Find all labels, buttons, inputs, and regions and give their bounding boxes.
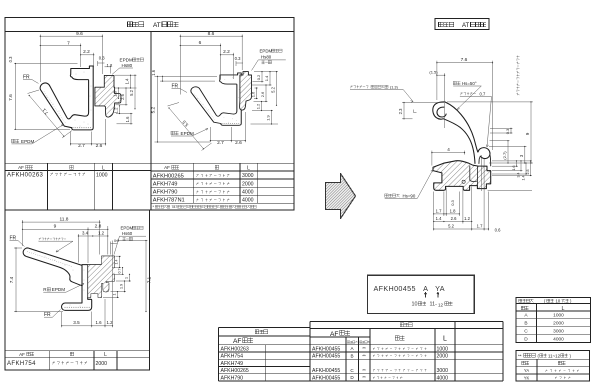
- dimensions drawing3: [14, 220, 148, 327]
- beak inner curl: [437, 107, 446, 117]
- label mimi 0.7: [460, 92, 462, 95]
- dotted boundary foot3: [65, 306, 91, 308]
- svg-text:AFKH00455: AFKH00455: [312, 375, 340, 381]
- svg-text:Hs80: Hs80: [261, 55, 272, 60]
- svg-text:0.3: 0.3: [235, 56, 241, 61]
- svg-text:AFKH00455: AFKH00455: [374, 284, 416, 293]
- svg-text:4: 4: [447, 147, 450, 152]
- svg-text:4000: 4000: [242, 189, 254, 195]
- svg-text:1.2: 1.2: [98, 230, 105, 235]
- material boundary dashed line: [222, 123, 240, 125]
- svg-text:0.2: 0.2: [256, 74, 261, 80]
- svg-text:A: A: [423, 284, 428, 293]
- svg-text:0.6: 0.6: [495, 228, 501, 233]
- hatch region3: [88, 256, 115, 297]
- svg-text:1.6: 1.6: [512, 166, 516, 171]
- svg-text:1.6: 1.6: [251, 91, 256, 97]
- svg-text:2.6: 2.6: [96, 143, 103, 149]
- svg-text:2.3: 2.3: [398, 108, 403, 114]
- svg-text:2.8: 2.8: [526, 170, 530, 175]
- attached hatched part drawing2: [240, 72, 252, 110]
- svg-text:D: D: [524, 336, 528, 342]
- svg-text:0.7: 0.7: [480, 92, 486, 97]
- svg-text:AT: AT: [462, 23, 470, 29]
- svg-text:EPDM: EPDM: [52, 287, 65, 292]
- 本体EPDM label: [12, 139, 16, 143]
- svg-text:AFKH00265: AFKH00265: [221, 368, 249, 374]
- svg-text:1.6: 1.6: [125, 116, 130, 122]
- 本体EPDM label d2: [171, 131, 175, 135]
- svg-text:**: **: [362, 346, 366, 351]
- part number box AFKH00455 A YA: [367, 275, 474, 313]
- svg-text:0.7: 0.7: [118, 269, 122, 274]
- svg-text:6: 6: [199, 40, 202, 46]
- svg-text:AFKH787N1: AFKH787N1: [153, 198, 185, 204]
- svg-text:B: B: [524, 321, 527, 327]
- svg-text:(1.5): (1.5): [429, 70, 438, 75]
- svg-text:EPDM: EPDM: [120, 58, 133, 63]
- svg-text:1.7: 1.7: [477, 224, 483, 229]
- svg-text:0.3: 0.3: [99, 56, 105, 61]
- svg-text:2000: 2000: [96, 361, 108, 367]
- table T2 under drawing2: [151, 163, 294, 209]
- svg-text:C: C: [524, 328, 528, 334]
- svg-text:1.2: 1.2: [114, 107, 119, 113]
- svg-text:L: L: [104, 352, 107, 358]
- svg-text:Hs80: Hs80: [122, 63, 133, 68]
- nub to base links: [479, 155, 491, 167]
- svg-text:3000: 3000: [242, 173, 254, 179]
- label soft Hs50: [453, 81, 456, 84]
- svg-text:Hs60: Hs60: [122, 231, 133, 236]
- svg-text:AF: AF: [164, 165, 170, 170]
- svg-text:1: 1: [113, 294, 117, 296]
- svg-text:3000: 3000: [436, 368, 448, 374]
- svg-text:2.6: 2.6: [451, 216, 457, 221]
- svg-text:AFKH00455: AFKH00455: [312, 346, 340, 352]
- title box 集約後 AT材形状: [435, 19, 489, 30]
- svg-text:11.8: 11.8: [60, 217, 69, 223]
- svg-text:2.2: 2.2: [223, 49, 230, 55]
- svg-text:4000: 4000: [242, 198, 254, 204]
- svg-text:4000: 4000: [553, 336, 564, 342]
- svg-text:3.4: 3.4: [516, 173, 520, 178]
- svg-text:AFKH749: AFKH749: [221, 361, 244, 367]
- svg-text:2000: 2000: [553, 321, 564, 327]
- svg-text:**: **: [362, 368, 366, 373]
- svg-text:EPDM: EPDM: [260, 49, 273, 54]
- svg-text:7.1: 7.1: [147, 276, 152, 283]
- svg-text:0.3: 0.3: [505, 128, 510, 134]
- svg-text:2.2: 2.2: [83, 49, 90, 55]
- material boundary dashed line: [73, 127, 92, 129]
- svg-text:5.2: 5.2: [448, 224, 454, 229]
- stipple dots: [196, 97, 199, 99]
- svg-text:Hs=50°: Hs=50°: [462, 81, 477, 86]
- svg-text:B: B: [350, 353, 353, 358]
- svg-text:5.2: 5.2: [129, 89, 134, 95]
- svg-text:L: L: [443, 336, 447, 343]
- svg-text:2000: 2000: [436, 354, 448, 360]
- svg-text:EPDM: EPDM: [181, 131, 194, 136]
- svg-text:10: 10: [412, 302, 418, 308]
- svg-text:4000: 4000: [436, 375, 448, 381]
- soft lip blade with curled beak: [433, 102, 475, 164]
- svg-text:2.7: 2.7: [78, 143, 85, 149]
- svg-text:1.4: 1.4: [436, 216, 442, 221]
- svg-text:8.6: 8.6: [208, 31, 215, 37]
- svg-text:1000: 1000: [553, 313, 564, 319]
- svg-text:L: L: [247, 165, 250, 171]
- svg-text:2.6: 2.6: [260, 91, 265, 97]
- svg-text:AFKH790: AFKH790: [153, 190, 178, 196]
- svg-text:0.3: 0.3: [8, 56, 13, 62]
- svg-text:AFKH754: AFKH754: [7, 361, 36, 367]
- svg-text:5.2: 5.2: [150, 106, 156, 113]
- svg-text:YK: YK: [524, 375, 530, 380]
- svg-text:L: L: [102, 165, 105, 171]
- stipple dots d3: [34, 251, 37, 254]
- svg-text:1.2: 1.2: [464, 216, 470, 221]
- svg-text:11~12: 11~12: [548, 353, 561, 358]
- svg-text:7: 7: [67, 40, 70, 46]
- svg-text:1.4: 1.4: [521, 176, 525, 181]
- svg-text:YA: YA: [524, 368, 529, 373]
- svg-text:1: 1: [125, 277, 129, 279]
- title bar line: [5, 31, 294, 33]
- svg-text:1.6: 1.6: [151, 69, 156, 75]
- svg-text:EPDM: EPDM: [21, 139, 34, 144]
- svg-text:2.7: 2.7: [217, 140, 224, 146]
- table T1 under drawing1: [5, 163, 151, 210]
- drawing4 group (集約後 profile): [433, 102, 491, 190]
- svg-text:AF: AF: [233, 338, 241, 345]
- svg-text:2.8: 2.8: [95, 224, 102, 230]
- text 10桁目 11-12桁目: [412, 302, 453, 308]
- label coating vertical right: [516, 56, 519, 96]
- svg-text:**: **: [362, 353, 366, 358]
- svg-text:AF: AF: [18, 165, 24, 170]
- svg-text:1.4: 1.4: [115, 260, 119, 265]
- svg-text:AFKH00265: AFKH00265: [153, 173, 184, 179]
- svg-text:2.6: 2.6: [235, 140, 242, 146]
- arrow under A: [424, 292, 426, 297]
- hatched insert piece: [95, 75, 121, 117]
- frame: top-left block 集約前: [5, 18, 294, 211]
- svg-text:10: 10: [556, 299, 561, 304]
- svg-text:9: 9: [54, 224, 57, 230]
- svg-text:1000: 1000: [96, 172, 108, 178]
- mapping table bottom-center: [219, 322, 504, 382]
- svg-text:(1.3): (1.3): [390, 86, 399, 90]
- svg-text:12: 12: [438, 303, 444, 308]
- svg-text:1.2: 1.2: [107, 63, 113, 68]
- stipple dots: [46, 96, 49, 99]
- svg-text:2000: 2000: [242, 181, 254, 187]
- svg-text:AF: AF: [19, 352, 25, 357]
- svg-text:(2.7): (2.7): [502, 151, 507, 160]
- svg-text:**: **: [362, 375, 366, 380]
- svg-text:1.9: 1.9: [266, 114, 271, 120]
- dimensions drawing4: [402, 61, 533, 231]
- svg-text:0.3: 0.3: [450, 199, 455, 205]
- svg-text:1.4: 1.4: [264, 75, 269, 81]
- slot in base: [470, 166, 478, 186]
- arrow under YA: [437, 292, 439, 297]
- svg-text:787: 787: [172, 205, 178, 209]
- hatched base part: [433, 161, 491, 191]
- svg-text:1.2: 1.2: [106, 320, 113, 325]
- svg-text:Hs=90: Hs=90: [403, 194, 416, 199]
- title text 集約前 AT材形状: [128, 22, 179, 29]
- svg-text:1.6: 1.6: [113, 90, 118, 96]
- divider between drawing1 and drawing2: [150, 32, 152, 211]
- svg-text:AFKH790: AFKH790: [221, 375, 244, 381]
- svg-text:1.9: 1.9: [120, 284, 124, 289]
- blade top edge: [445, 102, 478, 152]
- svg-text:AFKH754: AFKH754: [221, 354, 244, 360]
- svg-text:AFKH00455: AFKH00455: [312, 368, 340, 374]
- tip nub: [478, 148, 490, 159]
- svg-text:1.4: 1.4: [125, 78, 130, 84]
- color code table: [516, 351, 589, 382]
- body3: [62, 256, 115, 310]
- svg-text:AT: AT: [153, 22, 161, 29]
- svg-text:1.2: 1.2: [256, 103, 261, 109]
- svg-text:AFKH749: AFKH749: [153, 182, 178, 188]
- label 半硬質部Hs=90: [385, 194, 388, 197]
- dimensions drawing2: [155, 35, 279, 151]
- table T3: [5, 351, 150, 370]
- svg-text:3.5: 3.5: [73, 320, 80, 325]
- svg-text:2.6: 2.6: [120, 93, 125, 99]
- svg-text:**: **: [518, 353, 522, 358]
- dimensions drawing1: [14, 35, 137, 146]
- svg-text:AFKH00263: AFKH00263: [7, 173, 44, 179]
- svg-text:1.7: 1.7: [436, 208, 442, 213]
- foam label d3: [39, 238, 40, 241]
- svg-text:7.4: 7.4: [9, 276, 14, 283]
- drawing3 group: [23, 248, 114, 310]
- svg-text:7.6: 7.6: [461, 57, 468, 63]
- svg-text:11-: 11-: [430, 302, 438, 308]
- svg-text:9.6: 9.6: [76, 31, 83, 37]
- svg-text:AFKH00263: AFKH00263: [221, 346, 249, 352]
- svg-text:5.2: 5.2: [271, 86, 276, 92]
- svg-text:1.6: 1.6: [95, 320, 102, 325]
- length code table: [516, 297, 590, 342]
- drawing2 group (profile + attached insert): [191, 72, 252, 126]
- svg-text:L: L: [562, 306, 565, 312]
- svg-text:9: 9: [525, 132, 530, 135]
- label coating left: [350, 85, 352, 88]
- svg-text:YA: YA: [435, 284, 445, 293]
- svg-text:1000: 1000: [436, 346, 448, 352]
- flap3 (foam flap): [29, 248, 82, 265]
- svg-text:7.6: 7.6: [8, 94, 14, 101]
- small circle detail: [462, 180, 465, 183]
- svg-text:AFKH00455: AFKH00455: [312, 354, 340, 360]
- frame: bottom-left block: [5, 210, 150, 370]
- svg-text:1.8: 1.8: [450, 208, 456, 213]
- profile main body with flap: [191, 73, 241, 125]
- svg-text:3000: 3000: [553, 328, 564, 334]
- profile main body with flap: [40, 66, 93, 130]
- svg-text:3.4: 3.4: [82, 230, 89, 235]
